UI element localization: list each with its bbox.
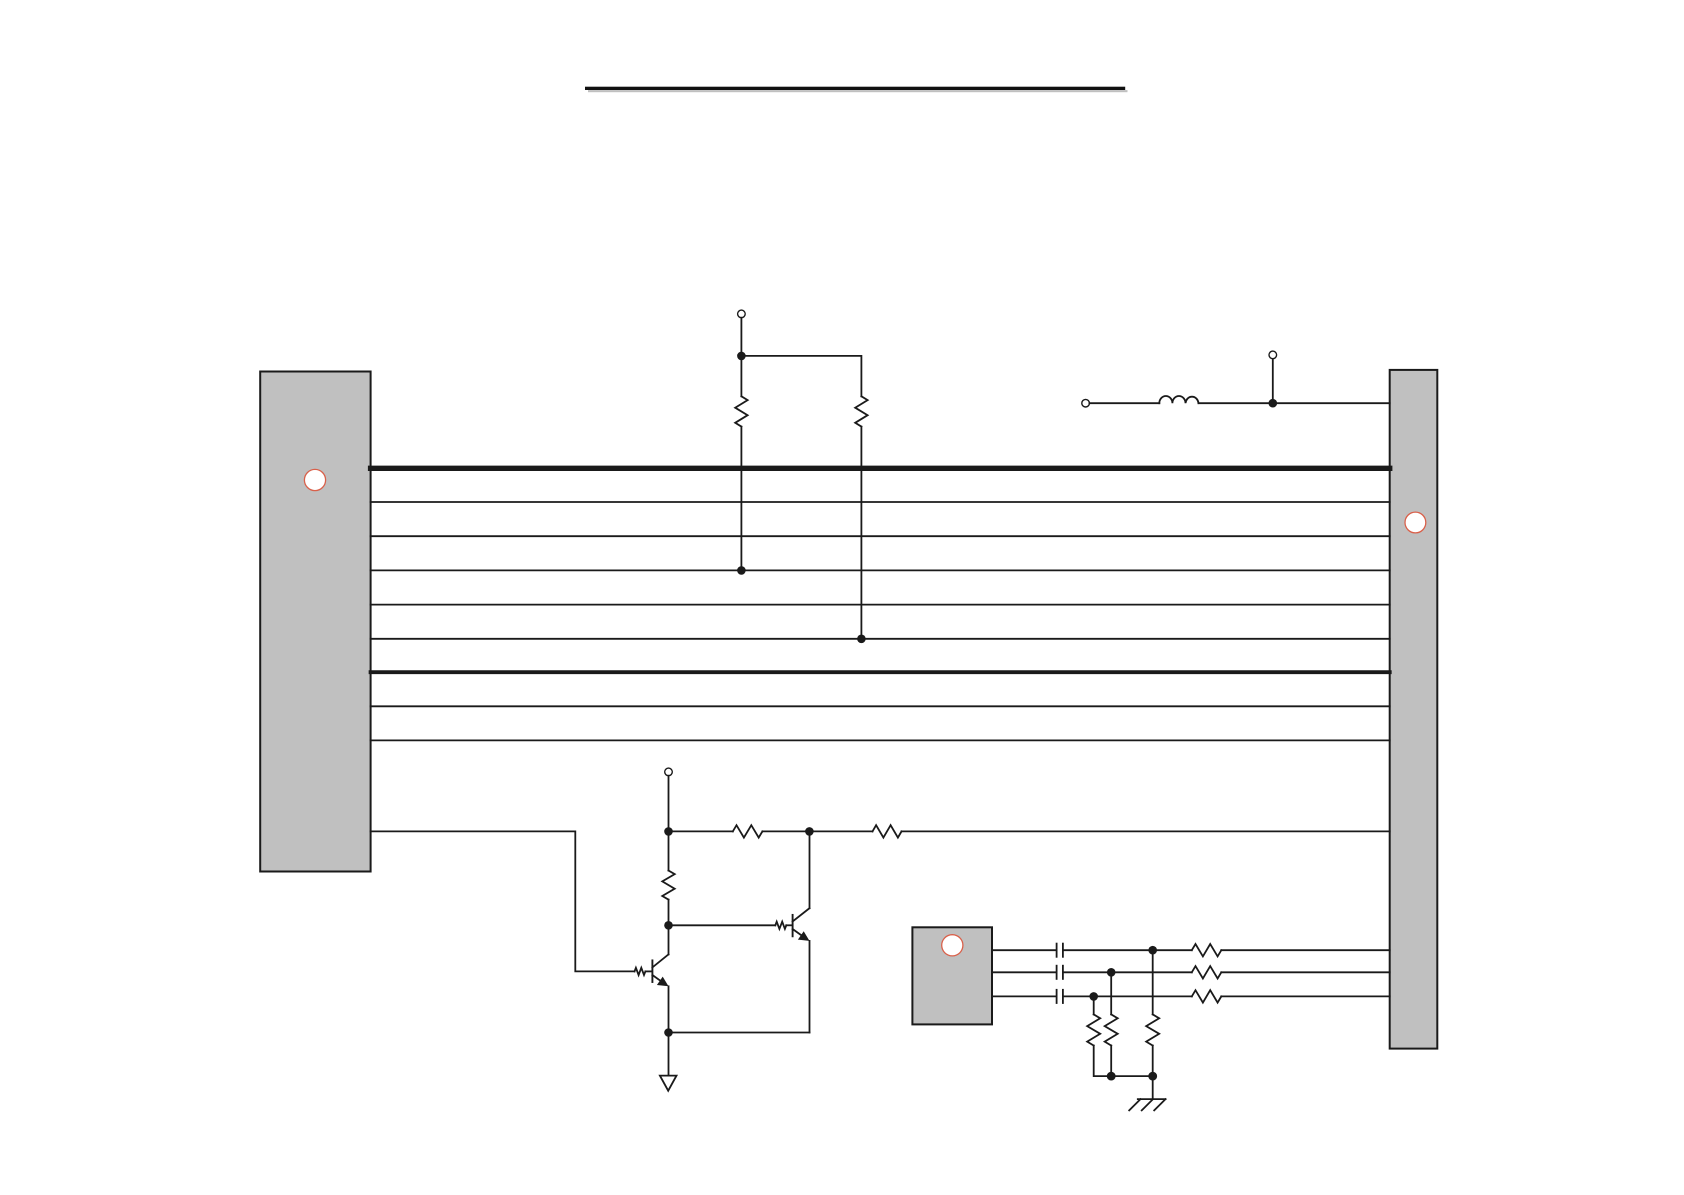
terminal T1 bbox=[1082, 399, 1090, 407]
wire bus line 4 bbox=[371, 569, 1390, 571]
resistor R3 bbox=[733, 825, 763, 837]
wire U3 pin 1 to C1 bbox=[992, 949, 1057, 951]
resistor R7 bbox=[1192, 966, 1222, 978]
wire C3 to R8 bbox=[1063, 995, 1192, 997]
node NE bbox=[1107, 1072, 1116, 1081]
node N5 bbox=[1089, 992, 1098, 1001]
wire R1 to bus line 4 bbox=[740, 427, 742, 571]
node on bus line 6 bbox=[857, 635, 866, 644]
pin-1 marker U2 bbox=[1405, 512, 1426, 533]
resistor RB2 (Q2 base) bbox=[775, 922, 786, 929]
IC U2 (right connector block) bbox=[1390, 370, 1438, 1049]
wire ND to Q2 emitter bbox=[669, 1032, 810, 1034]
wire NA down to R5 bbox=[668, 831, 670, 870]
wire N4 down to R10 bbox=[1110, 972, 1112, 1014]
wire R9 to bottom rail bbox=[1094, 1046, 1112, 1077]
wire NF down to ground bbox=[1152, 1076, 1154, 1099]
wire Q1 emitter to node ND bbox=[668, 986, 670, 1032]
wire VCC1 to node N1 bbox=[740, 318, 742, 356]
node N1 bbox=[737, 352, 746, 361]
wire bus line 9 bbox=[371, 739, 1390, 741]
wire L1 to U2 bbox=[1199, 402, 1390, 404]
wire VCC2 to node NA bbox=[668, 776, 670, 832]
wire bottom rail NE-NF bbox=[1111, 1075, 1153, 1077]
wire NA to R3 bbox=[669, 830, 733, 832]
pin-1 marker U1 bbox=[304, 469, 325, 490]
transistor Q1 bbox=[652, 954, 668, 986]
resistor R9 bbox=[1087, 1014, 1100, 1045]
wire N3 down to R11 bbox=[1152, 950, 1154, 1014]
ground GND2 (chassis ground) bbox=[1129, 1099, 1165, 1110]
wire R2 to bus line 6 bbox=[860, 427, 862, 639]
pin-1 marker U3 bbox=[942, 935, 963, 956]
wire bus line 2 bbox=[371, 501, 1390, 503]
wire N5 down to R9 bbox=[1093, 996, 1095, 1014]
wire RB2 to Q2 base bbox=[786, 924, 792, 926]
inductor L1 bbox=[1159, 396, 1198, 403]
title underline bbox=[585, 87, 1125, 90]
wire Q2 emitter down bbox=[809, 941, 811, 1033]
wire R8 to U2 bbox=[1221, 995, 1389, 997]
wire bus line 3 bbox=[371, 535, 1390, 537]
wire NC down to Q1 collector bbox=[668, 925, 670, 954]
ground GND1 (signal ground triangle) bbox=[660, 1076, 677, 1091]
resistor R4 bbox=[873, 825, 902, 837]
title underline shadow bbox=[588, 90, 1128, 92]
IC U3 (small block) bbox=[912, 927, 992, 1024]
resistor R8 bbox=[1192, 990, 1222, 1002]
capacitor C3 bbox=[1057, 990, 1063, 1003]
resistor R1 bbox=[735, 396, 747, 426]
IC U1 (left connector block) bbox=[260, 372, 370, 872]
bus wire B2 (thick) bbox=[371, 670, 1390, 674]
terminal VCC2 bbox=[665, 768, 673, 776]
resistor R5 bbox=[662, 871, 674, 900]
node ND bbox=[664, 1028, 673, 1037]
resistor RB1 (Q1 base) bbox=[635, 968, 646, 975]
wire U1 pin to Q1 base resistor bbox=[371, 831, 635, 971]
wire bus line 8 bbox=[371, 705, 1390, 707]
wire ND down to ground bbox=[668, 1033, 670, 1076]
wire N1 down to R1 bbox=[740, 356, 742, 396]
wire R6 to U2 bbox=[1221, 949, 1389, 951]
capacitor C2 bbox=[1057, 966, 1063, 979]
wire bus line 6 bbox=[371, 638, 1390, 640]
wire NC to RB2 bbox=[669, 924, 776, 926]
node N4 bbox=[1107, 968, 1116, 977]
node N3 bbox=[1148, 946, 1157, 955]
wire bus line 5 bbox=[371, 604, 1390, 606]
wire Q2 collector to NB bbox=[809, 831, 811, 908]
wire N1 to R2 top bbox=[741, 356, 861, 396]
wire R3 to node NB bbox=[762, 830, 872, 832]
wire T1 to L1 bbox=[1089, 402, 1159, 404]
capacitor C1 bbox=[1057, 944, 1063, 957]
resistor R2 bbox=[855, 396, 867, 426]
node NA bbox=[664, 827, 673, 836]
wire C1 to R6 bbox=[1063, 949, 1192, 951]
node NB bbox=[805, 827, 814, 836]
wire R5 to node NC bbox=[668, 900, 670, 926]
wire U3 pin 3 to C3 bbox=[992, 995, 1057, 997]
resistor R11 bbox=[1146, 1014, 1159, 1045]
terminal T2 bbox=[1269, 351, 1277, 359]
wire R10 to bottom rail node NE bbox=[1110, 1046, 1112, 1077]
bus wire B1 (thick) bbox=[371, 466, 1390, 471]
wire C2 to R7 bbox=[1063, 971, 1192, 973]
transistor Q2 bbox=[793, 908, 810, 941]
wire R7 to U2 bbox=[1221, 971, 1389, 973]
node NC bbox=[664, 921, 673, 930]
terminal VCC1 bbox=[738, 310, 746, 318]
wire U3 pin 2 to C2 bbox=[992, 971, 1057, 973]
node on bus line 4 bbox=[737, 566, 746, 575]
wire R4 to U2 bbox=[902, 830, 1390, 832]
wire RB1 to Q1 base bbox=[645, 970, 651, 972]
node NF bbox=[1148, 1072, 1157, 1081]
resistor R6 bbox=[1192, 944, 1222, 956]
node N2 bbox=[1269, 399, 1278, 408]
wire R11 to bottom rail node NF bbox=[1152, 1046, 1154, 1077]
resistor R10 bbox=[1105, 1014, 1118, 1045]
wire N2 up to T2 bbox=[1272, 359, 1274, 404]
